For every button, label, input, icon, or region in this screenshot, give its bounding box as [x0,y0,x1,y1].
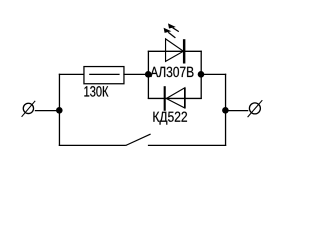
node A junction dot [56,107,63,114]
label KD522 [153,112,187,125]
diode VD2 right edge emphasis [184,88,186,108]
wire to resistor left [59,73,84,75]
diode VD2 triangle [166,88,185,108]
wire bottom left segment [59,144,126,146]
LED VD1 cathode bar [183,39,185,63]
wire diode-loop left vertical [147,51,149,99]
resistor R1 body [84,67,124,84]
wire node D to right terminal [226,110,249,112]
node C junction dot [198,71,205,78]
wire bottom right segment [148,144,226,146]
wire left terminal to node A [35,110,60,112]
wire resistor to node B [123,73,148,75]
wire diode-loop bottom rail [148,97,202,99]
label 130K [84,86,108,97]
terminal X1 (left input) [22,101,36,117]
LED VD1 emission arrow 1 [168,23,179,31]
node D junction dot [222,107,229,114]
node B junction dot [145,71,152,78]
diode VD2 cathode bar [164,86,166,111]
wire node C to right corner [201,73,227,75]
LED VD1 emission arrow 2 [164,28,176,38]
wire right vertical [225,74,227,146]
terminal X2 (right output) [248,100,263,117]
resistor R1 inner line [89,73,119,75]
label AL307V [150,67,193,77]
wire left vertical [58,74,60,146]
wire diode-loop top rail [148,50,202,52]
LED VD1 triangle [166,39,184,62]
switch SA1 lever [126,134,151,145]
wire diode-loop right vertical [200,51,202,99]
